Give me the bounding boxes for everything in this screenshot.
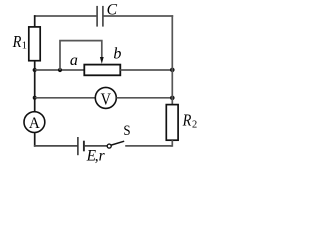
battery E,r plates — [78, 137, 84, 155]
node: junction dot at slider tap — [58, 68, 62, 72]
node: junction dot at V branch right / R2 top — [170, 96, 175, 101]
wire: right vertical (top corner down to R2) — [171, 15, 173, 105]
svg-text:V: V — [101, 90, 111, 108]
wire: mid horizontal (node to potentiometer left) — [35, 69, 85, 71]
svg-text:2: 2 — [192, 119, 197, 130]
wire: V branch left — [35, 97, 96, 99]
switch S lever — [111, 141, 124, 145]
wire: ammeter to bottom-left corner and to battery — [34, 132, 36, 146]
wire: left vertical (mid node to V node) — [34, 70, 36, 98]
wire: potentiometer right to right vertical — [120, 69, 172, 71]
switch S pivot — [107, 144, 111, 148]
resistor R2 — [166, 105, 178, 141]
node: junction dot mid-right — [170, 68, 175, 73]
ammeter A — [24, 112, 45, 133]
svg-text:A: A — [29, 114, 41, 132]
wire: V branch right — [116, 97, 172, 99]
wire: left vertical top (corner to R1 top) — [34, 15, 36, 27]
wire: R1 bottom to mid node — [34, 61, 36, 70]
resistor R1 — [29, 27, 40, 61]
wire: top-left horizontal to capacitor — [34, 15, 97, 17]
svg-text:S: S — [123, 122, 130, 139]
wire: switch right contact to bottom-right corner — [125, 145, 172, 147]
wire: R2 bottom to bottom wire — [171, 140, 173, 146]
node: junction dot at V branch left — [33, 96, 37, 100]
node: junction dot at R1 bottom / mid wire — [33, 68, 37, 72]
potentiometer ab — [84, 65, 120, 76]
svg-text:C: C — [107, 2, 118, 19]
wire: battery to switch pivot — [85, 145, 108, 147]
voltmeter V — [95, 87, 116, 108]
svg-text:b: b — [113, 45, 121, 62]
wire: capacitor to top-right corner — [103, 15, 173, 17]
wire: slider tap bracket — [60, 41, 102, 70]
wire: left vertical (V node to ammeter) — [34, 98, 36, 112]
wire: bottom-left to battery — [34, 145, 77, 147]
slider arrow head — [100, 57, 104, 64]
capacitor C plates — [97, 6, 103, 27]
svg-text:R: R — [182, 111, 192, 129]
svg-text:r: r — [99, 147, 106, 164]
svg-text:a: a — [70, 52, 78, 69]
svg-text:R: R — [12, 33, 22, 51]
svg-text:1: 1 — [22, 41, 27, 52]
